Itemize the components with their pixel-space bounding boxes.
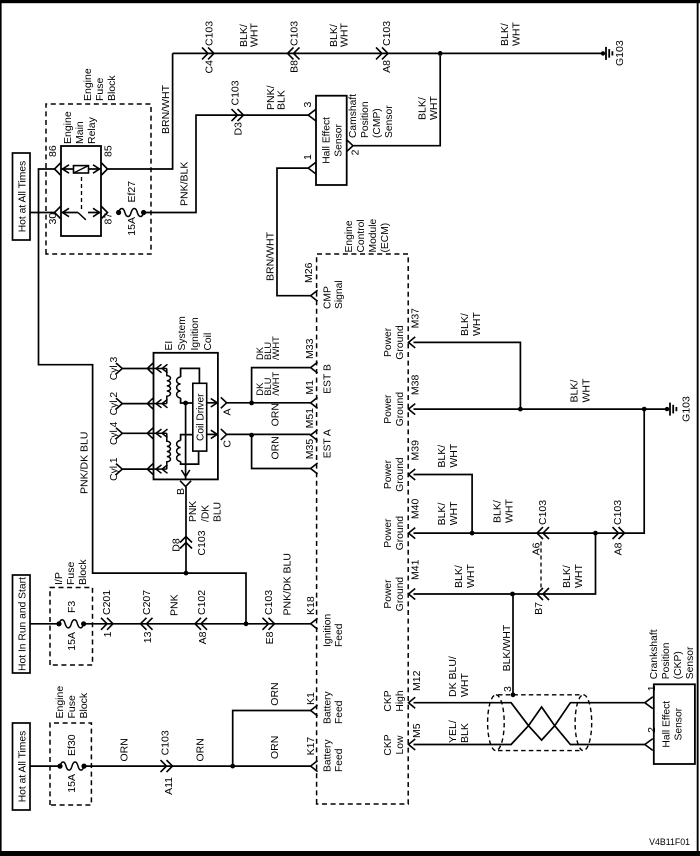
- wire: M41 to M40 net: [414, 533, 596, 594]
- svg-text:Ef30: Ef30: [66, 734, 78, 756]
- svg-text:Cyl.2: Cyl.2: [109, 392, 120, 416]
- relay pin 87: [102, 207, 108, 219]
- dashed link: relay coil to switch: [81, 175, 83, 209]
- svg-text:Relay: Relay: [86, 116, 98, 144]
- svg-text:PNK/BLK: PNK/BLK: [179, 162, 191, 206]
- svg-text:Cyl.4: Cyl.4: [109, 421, 120, 445]
- svg-text:Battery: Battery: [323, 739, 334, 772]
- svg-text:A8: A8: [613, 542, 625, 555]
- svg-text:13: 13: [142, 631, 154, 643]
- junction: EST B branch: [249, 401, 254, 406]
- svg-text:G103: G103: [614, 40, 626, 66]
- svg-text:PNK/DK BLU: PNK/DK BLU: [79, 432, 91, 494]
- svg-text:Hall Effect: Hall Effect: [662, 701, 673, 748]
- svg-text:BLK: BLK: [459, 723, 471, 743]
- svg-text:WHT: WHT: [339, 23, 351, 47]
- coil B+ rail from pin B: [185, 403, 187, 479]
- svg-text:C: C: [222, 440, 234, 448]
- svg-text:Coil: Coil: [203, 333, 214, 351]
- ECM pin M39 Power Ground: [409, 469, 416, 480]
- CMP pin 2: [347, 140, 353, 152]
- ECM pin M41 Power Ground: [409, 589, 416, 600]
- svg-text:2: 2: [350, 149, 362, 155]
- svg-text:C207: C207: [141, 590, 153, 615]
- svg-text:BLK: BLK: [276, 90, 288, 110]
- wire: M39 joins M40 net: [414, 475, 473, 534]
- svg-text:Ignition: Ignition: [190, 317, 201, 350]
- svg-text:CKP: CKP: [383, 734, 394, 755]
- power feed box: Hot at All Times (relay battery feed): [13, 153, 31, 240]
- svg-text:C4: C4: [204, 60, 216, 74]
- svg-text:1: 1: [646, 685, 658, 691]
- svg-text:Sensor: Sensor: [334, 124, 345, 157]
- svg-text:BLK/: BLK/: [561, 565, 573, 588]
- connector A11 C103: [161, 760, 167, 772]
- connector D8 C103: [180, 543, 192, 549]
- svg-text:M39: M39: [410, 440, 422, 461]
- svg-text:BLK/: BLK/: [459, 313, 471, 336]
- svg-text:15A: 15A: [126, 217, 138, 236]
- svg-text:Hot at All Times: Hot at All Times: [18, 731, 29, 803]
- ECM pin K1 Battery Feed: [311, 705, 318, 716]
- connector A8 C103 (ground bus): [376, 47, 382, 59]
- svg-text:K1: K1: [305, 692, 317, 705]
- ECM pin K17 Battery Feed: [311, 761, 318, 772]
- svg-text:C103: C103: [263, 590, 275, 615]
- coil pin C: [207, 433, 218, 435]
- svg-text:Power: Power: [383, 579, 394, 609]
- svg-text:ORN: ORN: [270, 436, 282, 459]
- I/P Fuse Block dashed box: [50, 588, 93, 666]
- svg-text:Hot at All Times: Hot at All Times: [18, 161, 29, 233]
- svg-text:BLK/: BLK/: [436, 503, 448, 526]
- svg-text:WHT: WHT: [504, 499, 516, 523]
- svg-text:DK BLU/: DK BLU/: [447, 656, 459, 697]
- junction: primary 1 to B+ rail: [183, 401, 188, 406]
- Engine Fuse Block dashed box (Ef30): [50, 723, 91, 805]
- wire: M37 to ground net BLK/WHT: [414, 342, 521, 409]
- ECM pin M26 CMP Signal: [311, 290, 318, 301]
- ground bus wire: BLK/WHT to G103: [173, 52, 603, 54]
- coil secondary winding Cyl.2-Cyl.3: [167, 369, 171, 404]
- Coil Driver box: [193, 383, 207, 451]
- svg-text:Cyl.3: Cyl.3: [109, 357, 120, 381]
- svg-text:WHT: WHT: [428, 96, 440, 120]
- svg-text:Signal: Signal: [334, 280, 345, 309]
- svg-text:BLK/: BLK/: [569, 380, 581, 403]
- svg-text:High: High: [395, 690, 406, 711]
- junction: battery feed splice: [230, 764, 235, 769]
- svg-text:Power: Power: [383, 459, 394, 489]
- svg-text:Block: Block: [77, 559, 89, 585]
- wire: YEL/BLK M5 to CKP pin 2 (twisted): [414, 707, 645, 745]
- coil primary winding 2: [177, 441, 181, 462]
- svg-text:F3: F3: [66, 601, 78, 613]
- svg-text:C103: C103: [537, 500, 549, 525]
- ECM pin M5 CKP Low: [409, 739, 416, 750]
- svg-text:C103: C103: [612, 500, 624, 525]
- svg-text:B: B: [175, 488, 187, 495]
- Engine Fuse Block dashed box (relay / Ef27): [46, 104, 151, 254]
- coil primary winding 1: [177, 377, 181, 398]
- Engine Control Module dashed box: [317, 254, 409, 804]
- svg-text:A8: A8: [197, 631, 209, 644]
- svg-text:3: 3: [302, 102, 314, 108]
- svg-text:A: A: [222, 409, 234, 416]
- svg-text:(ECM): (ECM): [380, 223, 391, 253]
- svg-text:(CMP): (CMP): [372, 108, 383, 138]
- svg-text:Ground: Ground: [395, 516, 406, 551]
- CMP pin 1: [308, 162, 316, 174]
- junction: M39 joins M40: [470, 531, 475, 536]
- wire: splice to ECM K1 Battery Feed: [233, 711, 311, 767]
- junction: ignition feed splice: [244, 621, 249, 626]
- svg-text:EST A: EST A: [323, 429, 334, 458]
- svg-text:BLK/: BLK/: [417, 97, 429, 120]
- shielded cable: twisted pair shield: [488, 695, 505, 751]
- svg-text:YEL/: YEL/: [447, 720, 459, 743]
- svg-text:B7: B7: [533, 602, 545, 615]
- svg-text:85: 85: [103, 145, 115, 157]
- wire: splice to ignition coil pin B: [185, 487, 187, 573]
- svg-text:C102: C102: [196, 590, 208, 615]
- svg-text:86: 86: [47, 145, 59, 157]
- wire: M40 to ground net via A6/A8 C103: [414, 409, 645, 533]
- connector A6 C103: [543, 527, 549, 539]
- svg-text:WHT: WHT: [573, 564, 585, 588]
- svg-text:G103: G103: [681, 396, 693, 422]
- svg-text:M51: M51: [304, 408, 316, 429]
- svg-text:Sensor: Sensor: [384, 105, 395, 138]
- svg-text:Crankshaft: Crankshaft: [649, 629, 660, 679]
- ground G103 (right): [665, 407, 669, 411]
- ECM pin M1 EST B: [311, 397, 318, 408]
- ground G103 (top): [601, 51, 605, 55]
- svg-text:Block: Block: [106, 75, 118, 101]
- svg-text:I/P: I/P: [53, 572, 65, 585]
- svg-text:C103: C103: [160, 730, 172, 755]
- svg-text:Block: Block: [78, 692, 90, 718]
- svg-text:1: 1: [302, 154, 314, 160]
- svg-text:EI: EI: [164, 341, 175, 351]
- svg-text:BLK/WHT: BLK/WHT: [501, 624, 513, 671]
- svg-text:Feed: Feed: [334, 623, 345, 647]
- connector B8 C103: [294, 47, 300, 59]
- junction: CMP sensor ground taps bus: [438, 51, 443, 56]
- svg-text:Ground: Ground: [395, 577, 406, 612]
- relay pin 85: [102, 163, 108, 175]
- svg-text:EST B: EST B: [323, 364, 334, 394]
- connector D3 C103: [232, 109, 238, 121]
- svg-text:Hot In Run and Start: Hot In Run and Start: [18, 577, 29, 671]
- svg-text:BLU: BLU: [213, 502, 224, 522]
- CMP pin 3: [308, 109, 316, 121]
- svg-text:ORN: ORN: [195, 738, 207, 761]
- svg-text:ORN: ORN: [119, 738, 131, 761]
- svg-text:CMP: CMP: [323, 286, 334, 309]
- junction: ground branch to M40 net: [642, 407, 647, 412]
- wire: BRN/WHT CMP pin 1 to ECM M26: [277, 168, 311, 296]
- svg-text:BLK/: BLK/: [436, 445, 448, 468]
- svg-text:BRN/WHT: BRN/WHT: [265, 231, 277, 281]
- wire: battery feed to relay pin 30: [30, 212, 55, 214]
- wire: CMP pin 2 to ground bus BLK/WHT: [353, 56, 440, 146]
- svg-text:M26: M26: [303, 262, 315, 283]
- wire: shield drain BLK/WHT to M41 net, pin 3: [511, 692, 516, 697]
- svg-text:ORN: ORN: [270, 403, 282, 426]
- svg-text:Position: Position: [360, 101, 371, 138]
- svg-text:CKP: CKP: [383, 690, 394, 711]
- svg-text:Ground: Ground: [395, 457, 406, 492]
- svg-text:D3: D3: [233, 122, 245, 136]
- svg-text:Ground: Ground: [395, 325, 406, 360]
- connector 1 C201: [101, 618, 107, 630]
- connector A8 C102: [201, 618, 207, 630]
- svg-text:Fuse: Fuse: [65, 561, 77, 585]
- svg-text:Ignition: Ignition: [323, 614, 334, 647]
- svg-text:K17: K17: [305, 737, 317, 756]
- svg-text:Camshaft: Camshaft: [348, 94, 359, 138]
- svg-text:15A: 15A: [66, 774, 78, 793]
- svg-text:/DK: /DK: [200, 505, 211, 522]
- svg-text:WHT: WHT: [448, 443, 460, 467]
- svg-text:M37: M37: [410, 308, 422, 329]
- svg-text:BLK/: BLK/: [492, 500, 504, 523]
- CMP sensor box: Hall Effect Sensor: [316, 96, 347, 185]
- power feed box: Hot at All Times (battery feed): [13, 723, 31, 810]
- svg-text:Module: Module: [368, 218, 379, 252]
- wire: ignition feed to fuse F3: [30, 623, 59, 625]
- svg-text:WHT: WHT: [511, 22, 523, 46]
- svg-text:Engine: Engine: [344, 220, 355, 252]
- fuse F3 15A: [56, 621, 61, 626]
- svg-text:M40: M40: [410, 499, 422, 520]
- svg-text:Control: Control: [356, 219, 367, 252]
- dashed link: connector C103 A6-B7: [540, 540, 542, 588]
- wire: EST B branch to ECM M33: [252, 368, 311, 403]
- svg-text:Cyl.1: Cyl.1: [109, 457, 120, 481]
- CKP pin 1: [645, 697, 653, 709]
- coil pin A: [207, 402, 218, 404]
- CKP pin 2: [645, 739, 653, 751]
- ECM pin M38 Power Ground: [409, 404, 416, 415]
- svg-text:2: 2: [646, 727, 658, 733]
- svg-text:Engine: Engine: [54, 686, 66, 719]
- svg-text:Hall Effect: Hall Effect: [322, 117, 333, 164]
- svg-text:Power: Power: [383, 394, 394, 424]
- svg-text:ORN: ORN: [269, 736, 281, 759]
- svg-text:Main: Main: [74, 121, 86, 144]
- svg-text:WHT: WHT: [249, 23, 261, 47]
- svg-text:M12: M12: [411, 670, 423, 691]
- svg-text:Power: Power: [383, 518, 394, 548]
- svg-text:BRN/WHT: BRN/WHT: [160, 84, 172, 134]
- svg-text:WHT: WHT: [459, 673, 471, 697]
- svg-text:PNK: PNK: [169, 594, 181, 616]
- connector 13 C207: [147, 618, 153, 630]
- svg-text:A11: A11: [163, 777, 175, 795]
- relay coil 86-85: [61, 168, 74, 170]
- svg-text:V4B11F01: V4B11F01: [649, 837, 690, 847]
- svg-text:3: 3: [502, 686, 514, 692]
- EI System Ignition Coil box: [154, 353, 218, 480]
- connector B7 C103: [543, 588, 549, 600]
- svg-text:C103: C103: [196, 530, 208, 555]
- svg-text:Sensor: Sensor: [685, 646, 696, 679]
- svg-text:WHT: WHT: [471, 312, 483, 336]
- connector A8 C103 (lower): [613, 527, 619, 539]
- svg-text:M33: M33: [304, 338, 316, 359]
- relay switch contacts 30-87: [61, 212, 78, 214]
- relay pin 86: [55, 163, 61, 175]
- svg-text:15A: 15A: [66, 632, 78, 651]
- junction: coil feed tap: [184, 571, 189, 576]
- wire: coil pin A to ECM M1 (EST B): [227, 402, 311, 404]
- svg-text:E8: E8: [264, 631, 276, 644]
- svg-text:87: 87: [103, 213, 115, 225]
- wire: EST A branch to ECM M35: [252, 435, 311, 468]
- svg-text:K18: K18: [305, 596, 317, 615]
- svg-text:C201: C201: [101, 590, 113, 615]
- svg-text:Low: Low: [395, 735, 406, 754]
- ECM pin M33: [311, 362, 318, 373]
- svg-text:Fuse: Fuse: [94, 77, 106, 101]
- coil secondary winding Cyl.1-Cyl.4: [167, 433, 171, 469]
- svg-text:C103: C103: [204, 21, 216, 46]
- power feed box: Hot In Run and Start: [13, 575, 31, 673]
- svg-text:Position: Position: [661, 642, 672, 679]
- fuse Ef30 15A: [57, 764, 62, 769]
- svg-text:B8: B8: [289, 60, 301, 73]
- svg-text:Sensor: Sensor: [674, 707, 685, 740]
- svg-text:C103: C103: [230, 80, 242, 105]
- relay: Engine Main Relay box: [61, 146, 101, 236]
- svg-text:A8: A8: [381, 60, 393, 73]
- svg-text:PNK/DK BLU: PNK/DK BLU: [282, 553, 294, 615]
- svg-text:M35: M35: [304, 439, 316, 460]
- wire: PNK/BLK fuse Ef27 to CMP sensor pin 3: [144, 115, 309, 212]
- svg-text:Power: Power: [383, 327, 394, 357]
- wire: battery feed to fuse Ef30: [30, 765, 60, 767]
- svg-text:BLK/: BLK/: [499, 23, 511, 46]
- svg-text:WHT: WHT: [448, 501, 460, 525]
- junction: shield drain taps M41: [510, 592, 515, 597]
- wire: coil pin C to ECM M51 (EST A): [227, 433, 311, 435]
- wire: fuse Ef30 to ECM K17 Battery Feed: [84, 765, 311, 767]
- ECM pin M37 Power Ground: [409, 337, 416, 348]
- svg-text:Coil Driver: Coil Driver: [196, 393, 207, 441]
- svg-text:BLK/: BLK/: [453, 565, 465, 588]
- ECM pin M51 EST A: [311, 430, 318, 441]
- CKP sensor box: Hall Effect Sensor: [654, 684, 695, 764]
- svg-text:/WHT: /WHT: [271, 336, 281, 360]
- svg-text:Engine: Engine: [62, 111, 74, 144]
- svg-text:/WHT: /WHT: [271, 372, 281, 396]
- svg-text:System: System: [177, 316, 188, 350]
- svg-text:WHT: WHT: [581, 378, 593, 402]
- fuse Ef27 15A: [116, 210, 121, 215]
- svg-text:1: 1: [102, 631, 114, 637]
- wire: DK BLU/WHT M12 to CKP pin 1 (twisted): [414, 703, 645, 740]
- wire: BRN/WHT relay 85 to ground bus: [108, 53, 173, 169]
- svg-text:PNK: PNK: [188, 501, 199, 522]
- svg-text:Battery: Battery: [323, 691, 334, 724]
- svg-text:30: 30: [47, 213, 59, 225]
- connector E8 C103: [263, 618, 269, 630]
- svg-text:Ef27: Ef27: [126, 181, 138, 203]
- junction: M37 joins M38: [518, 407, 523, 412]
- junction: B7 riser joins M40 wire: [593, 531, 598, 536]
- svg-text:C103: C103: [381, 21, 393, 46]
- svg-text:Feed: Feed: [334, 748, 345, 772]
- relay pin 30: [55, 207, 61, 219]
- svg-text:Fuse: Fuse: [66, 695, 78, 719]
- svg-text:M1: M1: [304, 380, 316, 395]
- wire: M38 to ground G103: [414, 408, 668, 410]
- svg-text:D8: D8: [171, 538, 183, 552]
- wire: fuse F3 to ECM K18 Ignition Feed: [84, 623, 311, 625]
- ECM pin K18 Ignition Feed: [311, 618, 318, 629]
- svg-text:M38: M38: [410, 375, 422, 396]
- svg-text:M41: M41: [410, 559, 422, 580]
- junction: EST A branch: [249, 433, 254, 438]
- svg-text:C103: C103: [289, 21, 301, 46]
- svg-text:WHT: WHT: [465, 564, 477, 588]
- svg-text:(CKP): (CKP): [673, 651, 684, 679]
- svg-text:ORN: ORN: [269, 682, 281, 705]
- ECM pin M40 Power Ground: [409, 528, 416, 539]
- svg-text:Engine: Engine: [82, 68, 94, 101]
- coil pin B: [180, 481, 191, 487]
- wire: PNK/DK BLU net (relay 86 - ignition coil B - F3 splice): [39, 169, 247, 624]
- svg-text:Ground: Ground: [395, 392, 406, 427]
- connector C4 C103: [202, 47, 208, 59]
- ECM pin M35: [311, 463, 318, 474]
- svg-text:M5: M5: [411, 723, 423, 738]
- svg-text:Feed: Feed: [334, 700, 345, 724]
- ECM pin M12 CKP High: [409, 697, 416, 708]
